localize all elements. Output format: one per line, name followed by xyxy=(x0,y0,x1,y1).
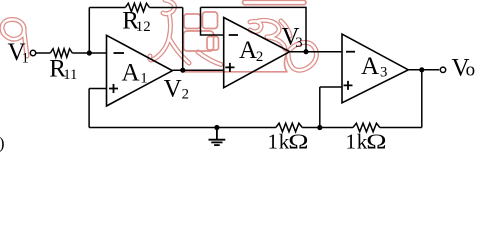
A3 plus xyxy=(344,81,353,90)
op-amp A2 xyxy=(224,18,290,88)
output terminal xyxy=(440,67,445,72)
wire output down xyxy=(421,70,423,128)
wire bottom rail xyxy=(89,127,276,129)
wire riser A3 xyxy=(319,87,321,128)
svg-text:1: 1 xyxy=(22,50,29,66)
svg-text:12: 12 xyxy=(136,19,151,35)
watermark thin outline shapes xyxy=(184,0,307,72)
svg-text:Ω: Ω xyxy=(366,130,386,153)
svg-text:2: 2 xyxy=(182,87,189,103)
node V3 xyxy=(303,49,308,54)
wire A2 inverting input xyxy=(201,7,224,35)
svg-text:o: o xyxy=(466,59,476,80)
resistor R11 xyxy=(50,49,72,58)
svg-text:3: 3 xyxy=(295,35,302,51)
svg-text:1k: 1k xyxy=(268,130,291,154)
A2 minus xyxy=(229,34,238,36)
wire rail left xyxy=(89,7,125,9)
wire rail right xyxy=(150,7,183,9)
A1 plus xyxy=(109,84,118,93)
node A3 plus rail xyxy=(317,125,322,130)
node output xyxy=(419,67,424,72)
watermark outlined strokes (pink hollow) xyxy=(2,0,316,70)
ground xyxy=(209,128,226,146)
resistor R12 xyxy=(125,3,149,12)
A1 minus xyxy=(114,52,125,54)
svg-text:11: 11 xyxy=(63,67,77,83)
svg-text:A: A xyxy=(122,59,140,86)
A2 plus xyxy=(225,63,234,72)
wire rail down to V2 xyxy=(182,8,184,71)
input minus/plus symbols xyxy=(109,35,355,93)
resistor 1k first xyxy=(276,123,302,132)
input terminal xyxy=(30,50,35,55)
svg-text:V: V xyxy=(164,75,182,102)
wire A1 output to A2 noninverting input xyxy=(172,69,223,71)
wire between resistors xyxy=(302,127,353,129)
svg-text:A: A xyxy=(361,53,379,80)
wire node up to R12 rail xyxy=(88,8,90,54)
svg-text:1: 1 xyxy=(140,70,147,86)
wire A3 noninverting input xyxy=(320,86,342,88)
node A1 inverting xyxy=(87,50,92,55)
wire input terminal to R11 xyxy=(36,52,51,54)
wire A2 feedback rail xyxy=(201,7,307,51)
svg-text:): ) xyxy=(0,134,4,153)
svg-text:3: 3 xyxy=(380,64,387,80)
junction dots xyxy=(87,49,425,130)
op-amp A3 xyxy=(342,34,408,103)
wire A3 output xyxy=(408,69,439,71)
svg-text:1k: 1k xyxy=(346,130,369,154)
wire riser left xyxy=(88,89,90,128)
node ground xyxy=(214,125,219,130)
wire A1 noninverting input xyxy=(89,88,106,90)
wire R11 to A1 inverting input xyxy=(72,52,106,54)
resistor 1k second xyxy=(353,123,380,132)
svg-text:A: A xyxy=(239,37,257,64)
wire rail right end xyxy=(380,127,422,129)
op-amp A1 xyxy=(107,35,173,106)
svg-text:2: 2 xyxy=(256,49,263,65)
A3 minus xyxy=(346,51,355,53)
wire A2 output to A3 inverting input xyxy=(290,51,342,53)
svg-text:Ω: Ω xyxy=(288,130,308,153)
node V2 xyxy=(180,68,185,73)
